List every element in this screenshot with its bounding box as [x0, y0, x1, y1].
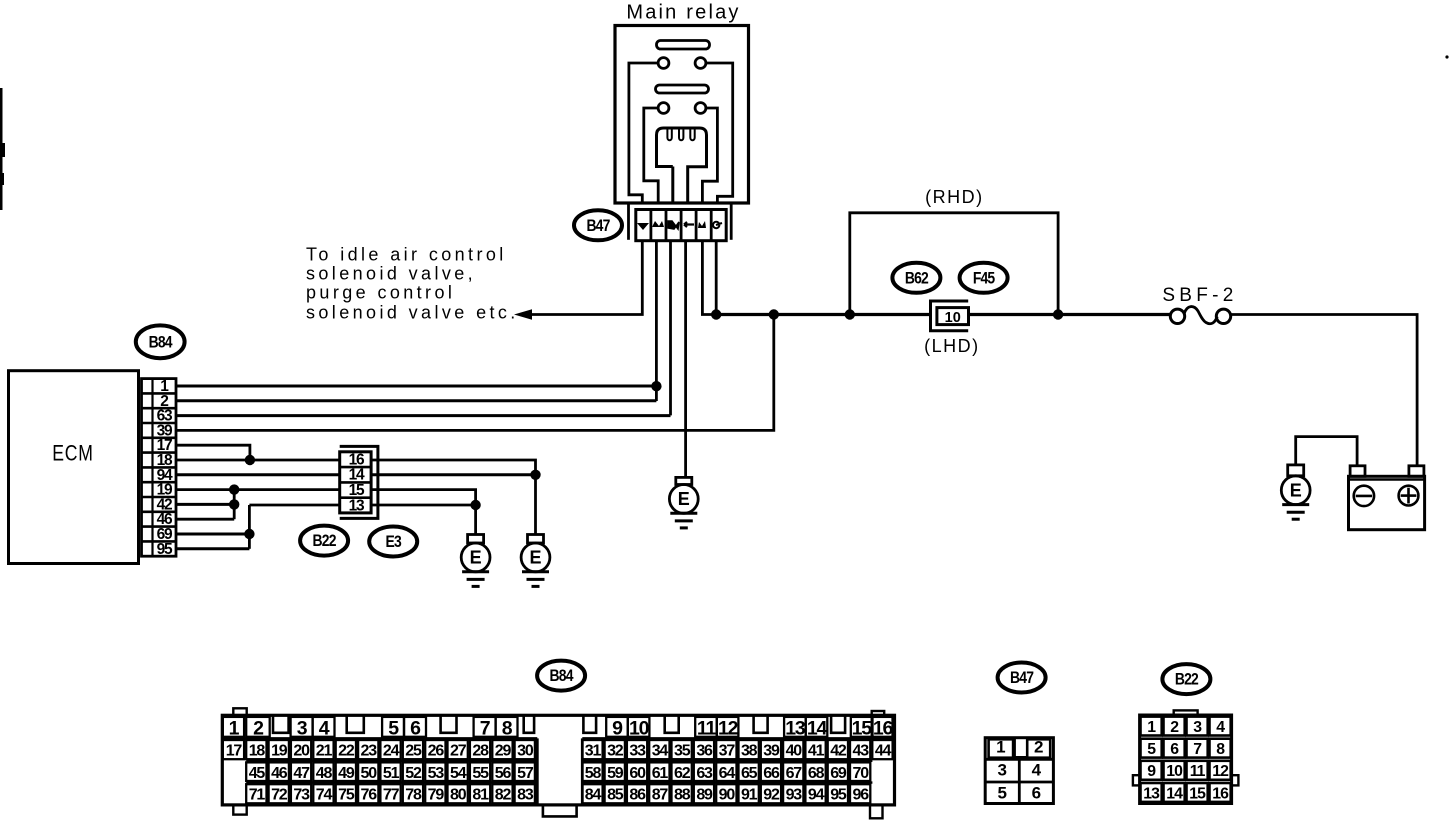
svg-text:54: 54	[450, 765, 467, 782]
B84 pin 49	[336, 762, 356, 781]
svg-text:44: 44	[875, 742, 892, 759]
svg-text:49: 49	[338, 765, 355, 782]
svg-text:E: E	[678, 489, 690, 509]
svg-text:19: 19	[271, 742, 288, 759]
svg-text:27: 27	[450, 742, 467, 759]
svg-text:56: 56	[495, 765, 512, 782]
B84 pin 86	[627, 784, 647, 803]
svg-text:3: 3	[1193, 719, 1202, 736]
svg-text:46: 46	[271, 765, 288, 782]
B84 pin 55	[470, 762, 490, 781]
B22 pin 16	[1210, 783, 1231, 802]
svg-text:96: 96	[853, 787, 870, 804]
B84 pin 65	[739, 762, 759, 781]
wire ECM pin 2	[176, 399, 656, 402]
svg-text:4: 4	[319, 718, 330, 740]
wire ECM pin 19 through connector 15 to ground	[176, 490, 476, 505]
B84 pin 7	[474, 717, 496, 740]
svg-text:11: 11	[697, 718, 717, 740]
B84 pin 2	[246, 717, 270, 740]
B84 pin 24	[380, 740, 400, 759]
svg-text:13: 13	[785, 718, 806, 740]
B84 pin 19	[269, 740, 289, 759]
svg-text:10: 10	[1166, 763, 1183, 780]
svg-text:21: 21	[316, 742, 333, 759]
svg-text:32: 32	[607, 742, 624, 759]
svg-text:8: 8	[1216, 741, 1225, 758]
B84 pin 21	[313, 740, 333, 759]
vertical joining pins 69,95 to 13-row	[248, 505, 251, 549]
svg-text:30: 30	[517, 742, 534, 759]
svg-text:15: 15	[1189, 785, 1206, 802]
junction RHD left	[845, 309, 855, 319]
wire ECM pin 18 through connector 16 to ground	[176, 460, 536, 475]
svg-text:91: 91	[741, 787, 758, 804]
svg-text:59: 59	[607, 765, 624, 782]
B84 pin 72	[269, 784, 289, 803]
svg-text:9: 9	[1147, 763, 1156, 780]
B84 pin 48	[313, 762, 333, 781]
wire ECM pin 42	[176, 503, 234, 506]
svg-text:31: 31	[585, 742, 602, 759]
wire pins 18/94 down to ground E	[534, 475, 537, 535]
svg-text:69: 69	[830, 765, 847, 782]
wire ECM pin 69	[176, 533, 249, 536]
B84 pin 32	[605, 740, 625, 759]
svg-text:12: 12	[1212, 763, 1229, 780]
B84 pin 27	[448, 740, 468, 759]
svg-text:47: 47	[293, 765, 310, 782]
svg-text:53: 53	[428, 765, 445, 782]
ground E right (B22 circuit)	[521, 535, 550, 587]
B22 pin 2	[1164, 717, 1185, 736]
B84 pin 89	[694, 784, 714, 803]
svg-text:F45: F45	[973, 269, 996, 288]
svg-text:5: 5	[388, 718, 399, 740]
B84 pin 38	[739, 740, 759, 759]
B84 pin 76	[358, 784, 378, 803]
B84 pin 92	[761, 784, 781, 803]
B84 pin 67	[783, 762, 803, 781]
connector B22 oval (bottom)	[1162, 664, 1210, 694]
wire B47-4 to ground E	[684, 241, 687, 478]
B84 pin 59	[605, 762, 625, 781]
svg-text:66: 66	[763, 765, 780, 782]
svg-text:(RHD): (RHD)	[925, 187, 984, 207]
main relay coil	[657, 128, 707, 202]
B84 pin 52	[403, 762, 423, 781]
B84 pin 11	[695, 717, 717, 740]
B84 pin 13	[784, 717, 806, 740]
svg-text:3: 3	[297, 718, 308, 740]
B84 pin 78	[403, 784, 423, 803]
wire B47-2 to ECM pins 1,2	[655, 241, 658, 401]
B22 pin 8	[1210, 739, 1231, 758]
svg-text:55: 55	[472, 765, 489, 782]
B84 pin 42	[828, 740, 848, 759]
svg-text:43: 43	[853, 742, 870, 759]
bus wire B47 to fuse	[716, 313, 930, 316]
svg-text:2: 2	[1034, 738, 1043, 757]
connector B84 pinout body	[222, 708, 894, 818]
svg-text:38: 38	[741, 742, 758, 759]
svg-text:E: E	[470, 548, 482, 568]
svg-text:E: E	[1290, 481, 1302, 501]
svg-text:92: 92	[763, 787, 780, 804]
B84 pin 71	[246, 784, 266, 803]
svg-text:B84: B84	[550, 667, 574, 686]
connector B47 pinout body	[985, 738, 1053, 804]
B84 pin 1	[223, 717, 244, 740]
B22 pin 3	[1187, 717, 1208, 736]
junction RHD right	[1053, 309, 1063, 319]
svg-text:37: 37	[719, 742, 736, 759]
svg-text:41: 41	[808, 742, 825, 759]
junction pin 19 branch	[229, 484, 239, 494]
ground E left (B22 circuit)	[461, 535, 490, 587]
junction pin 69	[244, 529, 254, 539]
B84 pin 41	[805, 740, 825, 759]
wire ECM pin 94 through connector 14	[176, 473, 536, 476]
B84 pin 45	[246, 762, 266, 781]
svg-text:3: 3	[997, 761, 1006, 780]
B84 pin 54	[448, 762, 468, 781]
svg-text:solenoid valve,: solenoid valve,	[306, 264, 476, 284]
svg-text:4: 4	[1032, 761, 1042, 780]
svg-text:94: 94	[808, 787, 825, 804]
B84 pin 63	[694, 762, 714, 781]
main relay case tab right	[730, 204, 733, 240]
svg-text:5: 5	[1147, 741, 1156, 758]
B84 pin 95	[828, 784, 848, 803]
svg-text:90: 90	[719, 787, 736, 804]
B84 pin 93	[783, 784, 803, 803]
svg-text:35: 35	[674, 742, 691, 759]
svg-text:79: 79	[428, 787, 445, 804]
svg-text:10: 10	[945, 310, 961, 326]
svg-text:57: 57	[517, 765, 534, 782]
main relay contact 2 right	[695, 103, 706, 114]
svg-text:95: 95	[830, 787, 847, 804]
svg-text:26: 26	[428, 742, 445, 759]
wire ECM pin 17 joins pin 18	[176, 445, 250, 460]
B22 pin 13	[1141, 783, 1162, 802]
B84 pin 36	[694, 740, 714, 759]
main relay case tab left	[627, 204, 630, 240]
svg-text:11: 11	[1190, 763, 1206, 780]
svg-text:6: 6	[410, 718, 421, 740]
junction B47-2 / ECM pin 1	[651, 381, 661, 391]
svg-text:39: 39	[763, 742, 780, 759]
svg-text:71: 71	[249, 787, 266, 804]
B84 pin 47	[291, 762, 311, 781]
B84 pin 31	[582, 740, 602, 759]
B22 pin 9	[1141, 761, 1162, 780]
svg-text:33: 33	[629, 742, 646, 759]
B84 pin 23	[358, 740, 378, 759]
svg-text:B22: B22	[313, 532, 337, 551]
B84 pin 46	[269, 762, 289, 781]
svg-text:15: 15	[852, 718, 873, 740]
scan speck top right	[1445, 55, 1448, 58]
svg-text:8: 8	[502, 718, 513, 740]
main relay contact 2 left	[658, 103, 669, 114]
svg-text:22: 22	[338, 742, 355, 759]
B84 pin 83	[515, 784, 535, 803]
wire connector 13 row to ground E	[249, 504, 475, 507]
svg-text:16: 16	[1212, 785, 1229, 802]
svg-text:80: 80	[450, 787, 467, 804]
svg-text:40: 40	[786, 742, 803, 759]
B84 pin 29	[492, 740, 512, 759]
svg-text:B22: B22	[1175, 670, 1199, 689]
B22 pin 7	[1187, 739, 1208, 758]
connector B62 oval	[892, 263, 940, 293]
B22 pin 14	[1164, 783, 1185, 802]
svg-text:29: 29	[495, 742, 512, 759]
svg-text:B47: B47	[586, 217, 609, 236]
svg-text:6: 6	[1032, 784, 1041, 803]
svg-text:64: 64	[719, 765, 736, 782]
ECM box	[9, 371, 139, 564]
B84 pin 51	[380, 762, 400, 781]
B84 pin 34	[649, 740, 669, 759]
svg-text:17: 17	[226, 742, 243, 759]
svg-text:5: 5	[997, 784, 1006, 803]
main relay internal wire: contact1 left to pin B47-1	[629, 63, 658, 203]
B84 pin 10	[628, 717, 650, 740]
ECM connector strip B84 pins	[142, 379, 177, 557]
svg-text:48: 48	[316, 765, 333, 782]
main relay internal wire: contact1 right to pin B47-6	[706, 63, 733, 203]
svg-text:87: 87	[652, 787, 669, 804]
svg-text:20: 20	[293, 742, 310, 759]
connector B84 oval (top)	[136, 325, 185, 358]
svg-text:2: 2	[1170, 719, 1179, 736]
B22 pin 11	[1187, 761, 1208, 780]
B84 pin 44	[872, 740, 892, 759]
svg-text:85: 85	[607, 787, 624, 804]
wire ECM pin 95	[176, 547, 249, 550]
svg-text:To idle air control: To idle air control	[306, 245, 507, 265]
connector F45 oval	[960, 263, 1008, 293]
B84 pin 81	[470, 784, 490, 803]
svg-text:7: 7	[480, 718, 490, 740]
B84 pin 91	[739, 784, 759, 803]
svg-text:68: 68	[808, 765, 825, 782]
B84 pin 50	[358, 762, 378, 781]
B84 pin 18	[246, 740, 266, 759]
B84 pin 3	[291, 717, 313, 740]
svg-text:16: 16	[873, 718, 894, 740]
svg-text:14: 14	[1166, 785, 1183, 802]
svg-text:B84: B84	[149, 333, 173, 352]
RHD bypass wire	[850, 213, 1058, 315]
svg-text:81: 81	[472, 787, 489, 804]
connector B22 pinout body	[1133, 710, 1239, 803]
B84 pin 16	[873, 717, 894, 740]
B84 pin 28	[470, 740, 490, 759]
B22 pin 15	[1187, 783, 1208, 802]
B84 pin 85	[605, 784, 625, 803]
fuse 10 (LHD)	[931, 301, 969, 331]
main relay contact bar 2	[656, 85, 709, 93]
svg-text:SBF-2: SBF-2	[1162, 285, 1237, 306]
B84 pin 4	[313, 717, 335, 740]
svg-text:23: 23	[361, 742, 378, 759]
svg-text:67: 67	[786, 765, 803, 782]
scan artifact left edge	[0, 88, 5, 210]
wire ECM pin 46	[176, 518, 234, 521]
svg-text:34: 34	[652, 742, 669, 759]
connector B47 body	[636, 210, 726, 241]
ground E battery	[1281, 465, 1310, 519]
B84 pin 9	[606, 717, 628, 740]
svg-text:95: 95	[157, 541, 173, 558]
main relay contact 1 right	[695, 58, 706, 69]
svg-text:ECM: ECM	[52, 442, 93, 466]
connector E3 oval	[369, 527, 417, 557]
wire ECM pin 1	[176, 385, 656, 388]
B84 pin 15	[851, 717, 872, 740]
svg-text:25: 25	[405, 742, 422, 759]
wire battery negative to ground E	[1296, 437, 1357, 466]
B84 pin 94	[805, 784, 825, 803]
B84 pin 68	[805, 762, 825, 781]
B84 pin 77	[380, 784, 400, 803]
svg-text:77: 77	[383, 787, 400, 804]
svg-text:36: 36	[696, 742, 713, 759]
battery	[1349, 466, 1425, 530]
connector B22/E3 cells	[340, 452, 371, 513]
B84 pin 5	[382, 717, 404, 740]
svg-text:13: 13	[1143, 785, 1160, 802]
SBF-2 fusible link	[1170, 307, 1230, 324]
B84 pin 61	[649, 762, 669, 781]
svg-text:63: 63	[696, 765, 713, 782]
svg-text:13: 13	[349, 497, 365, 514]
connector B47 terminal marks	[637, 221, 722, 230]
B84 pin 20	[291, 740, 311, 759]
svg-text:24: 24	[383, 742, 400, 759]
svg-text:10: 10	[629, 718, 650, 740]
B84 pin 69	[828, 762, 848, 781]
B84 pin 80	[448, 784, 468, 803]
wire ECM pin 63	[176, 414, 671, 417]
svg-text:B62: B62	[905, 269, 929, 288]
B84 pin 6	[404, 717, 426, 740]
svg-text:18: 18	[249, 742, 266, 759]
svg-text:84: 84	[585, 787, 602, 804]
svg-text:4: 4	[1216, 719, 1225, 736]
svg-text:83: 83	[517, 787, 534, 804]
connector B84 oval (bottom)	[537, 661, 585, 691]
B84 pin 84	[582, 784, 602, 803]
B84 pin 74	[313, 784, 333, 803]
svg-text:14: 14	[807, 718, 828, 740]
svg-text:E3: E3	[386, 533, 403, 552]
B84 pin 14	[806, 717, 828, 740]
svg-text:6: 6	[1170, 741, 1179, 758]
B84 pin 60	[627, 762, 647, 781]
main relay contact bar 1	[657, 41, 710, 50]
svg-text:89: 89	[696, 787, 713, 804]
bus wire fuse to SBF-2	[969, 313, 1171, 316]
B84 pin 22	[336, 740, 356, 759]
B84 pin 64	[716, 762, 736, 781]
B84 pin 25	[403, 740, 423, 759]
B84 pin 43	[850, 740, 870, 759]
main relay contact 1 left	[658, 58, 669, 69]
connector B22 oval	[300, 526, 348, 556]
svg-text:solenoid valve etc.: solenoid valve etc.	[306, 303, 519, 323]
svg-text:7: 7	[1193, 741, 1202, 758]
B84 pin 40	[783, 740, 803, 759]
B22 pin 4	[1210, 717, 1231, 736]
B84 pin 37	[716, 740, 736, 759]
main relay internal wire: contact2 right to pin B47-5	[702, 108, 717, 203]
B22 pin 5	[1141, 739, 1162, 758]
svg-text:76: 76	[361, 787, 378, 804]
connector B22/E3 bracket	[340, 446, 378, 518]
connector B84 key slots	[273, 715, 845, 733]
B84 pin 62	[672, 762, 692, 781]
wire ECM pin 39 to bus vertical	[176, 315, 774, 431]
B84 pin 90	[716, 784, 736, 803]
wire B47-1 to idle air control branch	[523, 241, 642, 315]
svg-text:45: 45	[249, 765, 266, 782]
junction pin 42 branch	[229, 499, 239, 509]
B84 pin 57	[515, 762, 535, 781]
B84 pin 8	[496, 717, 518, 740]
wire B47-5 to bus	[702, 241, 716, 315]
svg-text:1: 1	[996, 738, 1005, 757]
svg-text:73: 73	[293, 787, 310, 804]
connector B84 row divider lines	[222, 738, 894, 782]
svg-text:78: 78	[405, 787, 422, 804]
svg-text:86: 86	[629, 787, 646, 804]
junction pins 17/18	[245, 455, 255, 465]
svg-text:28: 28	[472, 742, 489, 759]
svg-text:82: 82	[495, 787, 512, 804]
svg-text:70: 70	[853, 765, 870, 782]
svg-text:74: 74	[316, 787, 333, 804]
svg-text:62: 62	[674, 765, 691, 782]
B22 pin 1	[1141, 717, 1162, 736]
svg-text:93: 93	[786, 787, 803, 804]
B84 pin 39	[761, 740, 781, 759]
junction bus / pin39 vertical	[769, 309, 779, 319]
B84 pin 79	[425, 784, 445, 803]
wire B47-6 to bus	[715, 241, 718, 315]
B22 pin 12	[1210, 761, 1231, 780]
wire B47-3 to ECM pin 63	[669, 241, 672, 416]
junction bus / B47 wires	[711, 309, 721, 319]
B84 pin 88	[672, 784, 692, 803]
svg-text:58: 58	[585, 765, 602, 782]
note: to idle air control	[306, 245, 519, 323]
B22 pin 6	[1164, 739, 1185, 758]
B84 pin 53	[425, 762, 445, 781]
B84 pin 58	[582, 762, 602, 781]
B84 pin 70	[850, 762, 870, 781]
svg-text:1: 1	[1147, 719, 1156, 736]
svg-text:52: 52	[405, 765, 422, 782]
B84 pin 35	[672, 740, 692, 759]
svg-text:12: 12	[718, 718, 739, 740]
B84 pin 56	[492, 762, 512, 781]
B84 pin 26	[425, 740, 445, 759]
